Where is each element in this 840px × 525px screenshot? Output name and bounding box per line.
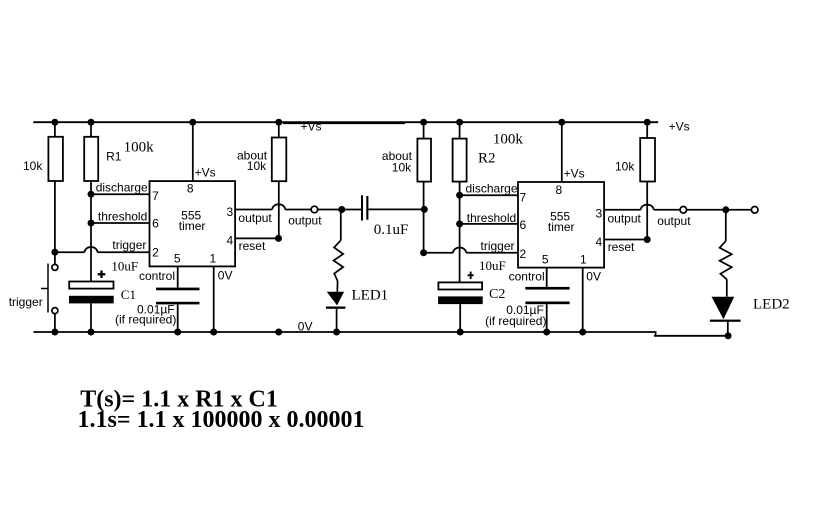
svg-text:0V: 0V [218, 269, 233, 283]
svg-text:output: output [608, 212, 642, 226]
svg-text:5: 5 [542, 253, 549, 267]
svg-text:reset: reset [608, 240, 635, 254]
svg-text:threshold: threshold [467, 211, 516, 225]
svg-text:10k: 10k [247, 159, 267, 173]
svg-text:4: 4 [226, 234, 233, 248]
svg-text:4: 4 [596, 235, 603, 249]
svg-text:10uF: 10uF [479, 258, 506, 273]
svg-text:R1: R1 [106, 150, 122, 164]
svg-text:0V: 0V [298, 320, 313, 334]
svg-text:+Vs: +Vs [301, 119, 322, 133]
svg-text:trigger: trigger [9, 295, 43, 309]
svg-text:10uF: 10uF [111, 258, 138, 273]
svg-text:100k: 100k [124, 139, 155, 155]
svg-text:1: 1 [210, 251, 217, 265]
svg-text:LED1: LED1 [352, 288, 389, 304]
svg-text:3: 3 [596, 206, 603, 220]
svg-text:trigger: trigger [481, 239, 515, 253]
svg-text:output: output [288, 213, 322, 227]
svg-text:reset: reset [239, 239, 266, 253]
svg-text:control: control [139, 269, 175, 283]
svg-text:discharge: discharge [96, 180, 148, 194]
svg-text:C1: C1 [121, 287, 136, 302]
svg-text:0V: 0V [586, 270, 601, 284]
svg-text:2: 2 [520, 247, 527, 261]
svg-text:1: 1 [580, 253, 587, 267]
svg-text:7: 7 [520, 191, 527, 205]
svg-text:(if required): (if required) [115, 313, 176, 327]
svg-text:control: control [509, 270, 545, 284]
svg-text:timer: timer [548, 220, 575, 234]
svg-text:7: 7 [152, 189, 159, 203]
svg-text:10k: 10k [392, 161, 412, 175]
svg-text:+Vs: +Vs [564, 167, 585, 181]
svg-text:output: output [657, 214, 691, 228]
svg-text:2: 2 [152, 246, 159, 260]
svg-text:6: 6 [520, 218, 527, 232]
svg-text:LED2: LED2 [753, 297, 790, 313]
svg-text:output: output [238, 211, 272, 225]
svg-text:1.1s= 1.1 x 100000 x 0.00001: 1.1s= 1.1 x 100000 x 0.00001 [78, 407, 365, 433]
svg-text:5: 5 [174, 251, 181, 265]
svg-text:100k: 100k [493, 131, 524, 147]
svg-text:10k: 10k [615, 160, 635, 174]
svg-text:6: 6 [152, 217, 159, 231]
svg-text:10k: 10k [23, 159, 43, 173]
svg-text:0.1uF: 0.1uF [374, 222, 409, 238]
svg-text:timer: timer [179, 219, 206, 233]
svg-text:+Vs: +Vs [195, 166, 216, 180]
svg-text:discharge: discharge [466, 181, 518, 195]
svg-text:C2: C2 [489, 287, 505, 302]
svg-text:8: 8 [187, 182, 194, 196]
svg-text:(if required): (if required) [485, 314, 546, 328]
svg-text:8: 8 [556, 183, 563, 197]
svg-text:+Vs: +Vs [669, 120, 690, 134]
svg-text:trigger: trigger [112, 238, 146, 252]
svg-text:3: 3 [226, 205, 233, 219]
svg-text:threshold: threshold [98, 210, 147, 224]
svg-text:R2: R2 [478, 151, 496, 167]
